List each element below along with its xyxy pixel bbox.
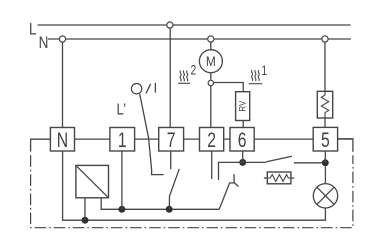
junction dot below terminal 1 (118, 206, 125, 213)
wire from dot to changeover fixed contact (219, 162, 243, 180)
wire sensor right pin to mid wire (101, 198, 219, 210)
wire motor to small terminal (210, 73, 212, 81)
relay coil RV (236, 92, 250, 121)
svg-text:N: N (39, 34, 49, 53)
node terminal on N line above motor (208, 36, 214, 42)
svg-text:L’: L’ (117, 101, 126, 118)
wire small terminal down to terminal 2 (210, 86, 212, 129)
junction dot below terminal 5 (322, 159, 329, 166)
svg-text:5: 5 (321, 128, 330, 152)
wire from dot to thermal switch S3 (243, 161, 266, 163)
wire lamp node down to lamp (324, 166, 326, 183)
wire node to motor (210, 42, 212, 50)
wire terminal 1 down to mid wire (121, 151, 123, 209)
wire small terminal to RV (214, 83, 244, 92)
node terminal on N line above resistor (322, 36, 328, 42)
svg-text:2: 2 (191, 62, 197, 78)
terminal box 2 (200, 128, 224, 152)
heater symbol 2 (wavy lines) (178, 71, 190, 84)
svg-text:6: 6 (238, 128, 247, 152)
wire terminal N down to bottom wire and bottom return wire to lamp (63, 151, 326, 220)
enclosure border dash-dot outline (31, 155, 353, 227)
wire terminal 7 stub (170, 151, 172, 169)
terminal box 5 (313, 127, 337, 151)
rotary control knob circle (131, 84, 141, 94)
switch blade of on/off switch S1 (169, 169, 179, 210)
label I bar (154, 83, 156, 93)
svg-text:M: M (206, 53, 216, 69)
label 0/I slash (146, 84, 151, 94)
node terminal on L line above box 7 (167, 22, 173, 28)
enclosure border solid corner right (338, 139, 353, 152)
terminal box 1 (110, 128, 135, 152)
svg-text:1: 1 (118, 128, 127, 152)
junction dot below terminal 7 (166, 206, 173, 213)
wire RV to terminal 6 (242, 121, 244, 129)
enclosure border solid corner left (31, 139, 51, 152)
wire terminal 5 stub (324, 151, 326, 163)
sensor element (square with diagonal) (76, 165, 109, 197)
svg-text:1: 1 (261, 62, 267, 78)
svg-text:N: N (57, 128, 68, 152)
svg-text:7: 7 (167, 128, 176, 152)
terminal box N (50, 128, 74, 152)
wire node to resistor (324, 42, 326, 91)
junction dot below sensor (82, 217, 89, 224)
wire terminal 2 stub (fixed contact) (211, 151, 213, 179)
wire terminal 6 stub to dot (242, 151, 244, 162)
node terminal on N line above box N (59, 36, 65, 42)
switch blade S3 (266, 156, 292, 162)
wire from N-line node down to terminal N (62, 42, 64, 128)
wire resistor to terminal 5 (324, 118, 326, 128)
mechanical link from knob to switch (140, 94, 164, 175)
motor M (199, 50, 222, 73)
junction dot below terminal 6 (239, 159, 246, 166)
resistor R (boxed heating element) (317, 91, 332, 118)
net N supply line (48, 38, 351, 40)
svg-text:2: 2 (207, 128, 216, 152)
indicator lamp (313, 184, 337, 208)
svg-text:RV: RV (237, 100, 248, 111)
terminal box 6 (230, 128, 254, 152)
svg-text:L: L (29, 20, 37, 39)
terminal bus line (31, 138, 353, 140)
resistor R2 (264, 172, 294, 184)
node small open terminal below motor (208, 80, 213, 85)
terminal box 7 (159, 128, 184, 152)
wire from L-line node down to terminal 7 (169, 28, 171, 128)
wire switch S3 to lamp node (294, 162, 325, 164)
wire sensor left pin (84, 198, 86, 220)
changeover switch blade S2 (219, 174, 238, 209)
heater symbol 1 (wavy lines) (249, 70, 263, 84)
net L supply line (38, 24, 351, 26)
